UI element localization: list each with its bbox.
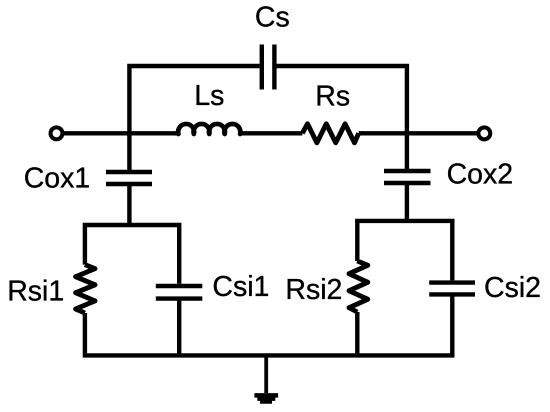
wire: Cox2 to right RC tank (405, 183, 409, 223)
svg-text:Rsi2: Rsi2 (285, 274, 342, 306)
wire: left tank top bar and sides (85, 225, 179, 284)
terminal P1 (left port) (51, 127, 63, 139)
capacitor Csi2 (429, 283, 475, 295)
ground symbol (stepped triangle) (254, 393, 278, 404)
wire: top rail right half with right riser (Cs to node B) (277, 66, 407, 173)
svg-text:Cs: Cs (255, 2, 290, 34)
resistor Rs (302, 124, 358, 143)
svg-text:Csi1: Csi1 (212, 271, 269, 303)
capacitor Cox2 (384, 171, 431, 183)
svg-text:Cox2: Cox2 (447, 159, 514, 191)
wire: left tank bottom, bottom rail, right side of right tank (85, 294, 452, 355)
wire: resistor Rs to right terminal (359, 131, 477, 135)
svg-text:Csi2: Csi2 (484, 272, 541, 304)
wire: Rsi2 to bottom rail (355, 312, 359, 356)
wire: inductor Ls to resistor Rs (242, 131, 302, 135)
capacitor Csi1 (156, 286, 203, 299)
svg-text:Rs: Rs (315, 81, 350, 113)
wire: left terminal to inductor Ls (64, 131, 177, 135)
terminal P2 (right port) (478, 127, 490, 139)
wire: Csi1 to bottom rail (177, 299, 181, 356)
wire: right tank top bar and sides (357, 221, 452, 281)
svg-text:Ls: Ls (194, 80, 224, 112)
resistor Rsi2 (349, 261, 368, 312)
wire: Cox1 to left RC tank (127, 184, 131, 227)
inductor Ls (178, 124, 240, 134)
svg-text:Rsi1: Rsi1 (7, 275, 64, 307)
svg-text:Cox1: Cox1 (24, 163, 91, 195)
resistor Rsi1 (76, 265, 95, 313)
wire: ground stem (264, 355, 268, 393)
capacitor Cox1 (106, 172, 152, 184)
capacitor Cs (262, 45, 275, 90)
wire: top rail left half with left riser (node A to Cs) (129, 66, 259, 174)
